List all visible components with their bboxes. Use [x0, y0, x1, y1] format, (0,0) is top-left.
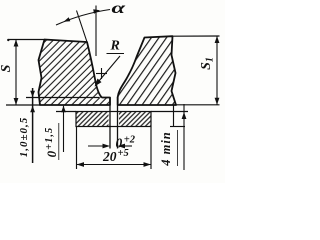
wire: short vertical near backing right end — [173, 105, 175, 127]
wire: plate bottom extension left — [6, 104, 40, 106]
dimension S left — [0, 40, 18, 106]
left plate body — [39, 40, 111, 106]
dimension 4 min backing thickness — [159, 104, 186, 170]
node weld centerline — [95, 6, 97, 57]
wire: root land line — [26, 97, 99, 99]
svg-text:S: S — [0, 64, 14, 72]
dimension 0+1,5 — [44, 106, 66, 160]
wire: right plate bottom extension — [176, 104, 220, 106]
dimension 1,0 +/- 0,5 — [18, 88, 35, 163]
wire: plate top extension left — [9, 39, 45, 41]
label R with leader — [95, 39, 125, 87]
wire: backing top extension left — [56, 111, 76, 113]
svg-text:1,0±0,5: 1,0±0,5 — [18, 117, 30, 158]
svg-text:α: α — [112, 0, 127, 17]
wire: backing bottom tick right — [170, 126, 185, 128]
dimension S1 right — [199, 36, 219, 105]
svg-text:4 min: 4 min — [159, 131, 173, 167]
dimension 0+2 root gap — [88, 135, 136, 151]
node root gap right wall extension — [117, 97, 119, 149]
svg-text:R: R — [110, 39, 120, 54]
right plate body — [118, 36, 176, 105]
wire: backing top extension right — [151, 111, 188, 113]
node root gap left wall extension — [109, 98, 111, 149]
backing strip — [76, 111, 151, 128]
dimension arc alpha — [56, 9, 110, 25]
wire: right plate top extension — [173, 35, 220, 37]
node radius center cross — [96, 68, 107, 79]
scan dot — [7, 39, 9, 41]
dimension 20+5 backing width — [77, 127, 152, 169]
wire: left bevel extension above plate — [77, 11, 88, 43]
